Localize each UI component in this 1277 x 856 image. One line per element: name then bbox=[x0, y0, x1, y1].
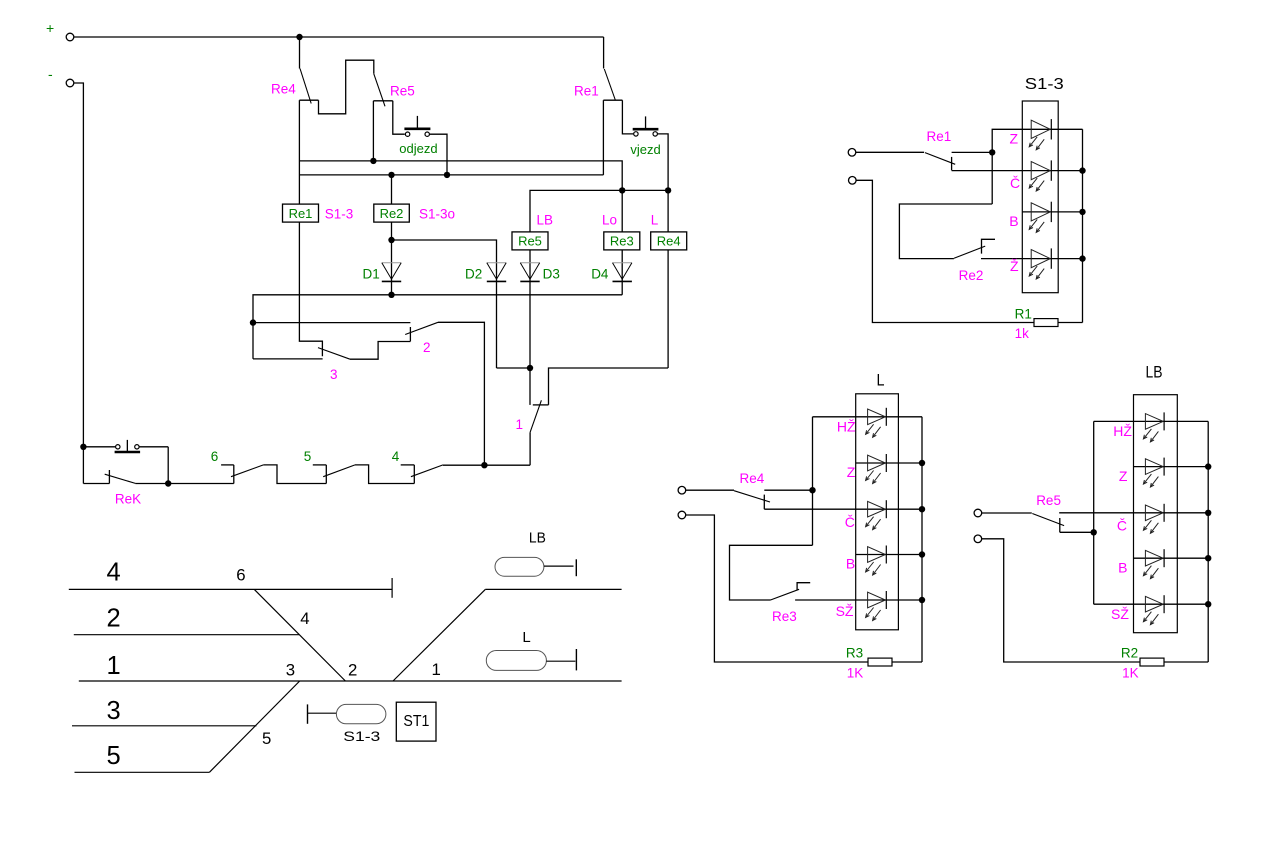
node junction busLB/Z bbox=[1205, 463, 1211, 469]
switch contact 3 bbox=[318, 348, 350, 360]
wire row C led L bbox=[868, 501, 886, 517]
station box ST1 bbox=[396, 702, 436, 741]
wire odjezd to line2 bbox=[429, 134, 447, 175]
node terminal S1-3 a bbox=[848, 149, 856, 157]
wire right bus LB bbox=[1207, 421, 1209, 662]
signal head L box bbox=[856, 394, 899, 630]
wire line1 bbox=[299, 161, 622, 191]
svg-text:odjezd: odjezd bbox=[399, 141, 437, 156]
svg-text:Č: Č bbox=[1010, 175, 1020, 191]
svg-text:L: L bbox=[651, 213, 659, 228]
node - terminal bbox=[66, 79, 74, 87]
node junction lower bus bbox=[481, 462, 487, 468]
svg-text:LB: LB bbox=[537, 213, 554, 228]
svg-text:+: + bbox=[46, 20, 54, 36]
track 4 line bbox=[69, 588, 392, 590]
wire bus-left bottom bbox=[253, 358, 323, 360]
switch contact 4 bbox=[401, 464, 415, 466]
wire D2 to switch1 node bbox=[497, 367, 531, 369]
svg-text:SŽ: SŽ bbox=[1111, 606, 1129, 622]
node junction ReK top bbox=[80, 444, 86, 450]
wire row HZ LB bbox=[1094, 420, 1209, 422]
wire right bus L bbox=[921, 417, 923, 662]
svg-text:Re3: Re3 bbox=[610, 234, 634, 249]
svg-text:Re5: Re5 bbox=[390, 84, 415, 99]
switch contact 5 bbox=[313, 464, 327, 466]
node terminal LB b bbox=[974, 535, 982, 543]
wire row B LB bbox=[1134, 557, 1209, 559]
svg-text:2: 2 bbox=[107, 604, 121, 632]
wire row C led LB bbox=[1145, 505, 1163, 521]
wire bottom S1-3 bbox=[856, 180, 1034, 322]
track turnout 5 diagonal bbox=[209, 681, 299, 772]
svg-text:S1-3: S1-3 bbox=[325, 207, 354, 222]
wire switch6 to switch5 bbox=[263, 465, 326, 484]
svg-text:Č: Č bbox=[845, 514, 855, 530]
wire - down to ReK bbox=[74, 83, 84, 447]
wire Re5 coil through D3 bbox=[529, 250, 531, 368]
svg-text:B: B bbox=[1009, 213, 1018, 229]
svg-text:5: 5 bbox=[107, 742, 121, 770]
svg-text:LB: LB bbox=[1146, 363, 1163, 382]
svg-text:L: L bbox=[877, 371, 885, 390]
wire row Z led bbox=[1031, 120, 1050, 138]
svg-text:Re2: Re2 bbox=[959, 268, 984, 283]
svg-text:1K: 1K bbox=[1122, 666, 1139, 681]
track 3 line bbox=[72, 725, 256, 727]
wire row Z led L bbox=[856, 462, 922, 464]
wire R1 to bus bbox=[1058, 322, 1083, 324]
svg-text:Re1: Re1 bbox=[574, 84, 599, 99]
resistor R2 bbox=[1140, 658, 1164, 666]
wire to Re2 contact bbox=[899, 204, 992, 259]
wire line2 bbox=[299, 174, 603, 176]
svg-text:Z: Z bbox=[1010, 131, 1019, 147]
wire R2 to bus bbox=[1164, 661, 1208, 663]
signal lamp S1-3 bbox=[307, 704, 309, 723]
wire row HZ bbox=[813, 416, 923, 418]
svg-text:Re2: Re2 bbox=[380, 206, 404, 221]
svg-text:Lo: Lo bbox=[602, 213, 617, 228]
wire row C feed bbox=[952, 170, 1083, 172]
wire to Re3 contact bbox=[730, 545, 813, 600]
svg-text:Č: Č bbox=[1117, 517, 1127, 533]
wire row B bbox=[1022, 211, 1082, 213]
wire left bus LB bbox=[1093, 421, 1095, 604]
node junction busLB/B bbox=[1205, 555, 1211, 561]
svg-text:4: 4 bbox=[300, 609, 309, 628]
node junction busLB/C bbox=[1205, 510, 1211, 516]
svg-text:R3: R3 bbox=[846, 646, 863, 661]
pushbutton odjezd bbox=[405, 132, 409, 136]
svg-text:S1-3: S1-3 bbox=[1025, 76, 1064, 93]
wire Re1 coil to switch 3 bbox=[299, 222, 322, 356]
wire row B led L bbox=[856, 554, 922, 556]
node junction line3/L bbox=[665, 187, 671, 193]
wire row Z LB bbox=[1134, 466, 1209, 468]
svg-text:6: 6 bbox=[236, 566, 245, 585]
track 1 line bbox=[79, 680, 622, 682]
node junction busLB/SZ bbox=[1205, 601, 1211, 607]
svg-text:Re4: Re4 bbox=[657, 234, 681, 249]
wire R3 to bus bbox=[892, 661, 922, 663]
svg-text:Re4: Re4 bbox=[740, 471, 765, 486]
wire Re1 NO to Z node bbox=[952, 151, 993, 153]
wire switch2 to lower bus bbox=[438, 322, 484, 465]
svg-text:3: 3 bbox=[286, 660, 295, 679]
node junction busL/C bbox=[919, 506, 925, 512]
wire row C feed LB bbox=[1059, 512, 1208, 514]
svg-text:D4: D4 bbox=[591, 267, 609, 282]
wire Re4 NO to HZ node bbox=[764, 489, 812, 491]
switch contact 6 bbox=[221, 464, 234, 466]
svg-text:vjezd: vjezd bbox=[630, 142, 660, 157]
switch contact 1 bbox=[529, 368, 531, 405]
wire Re3 coil through D4 bbox=[621, 250, 623, 295]
svg-text:1: 1 bbox=[107, 652, 121, 680]
svg-text:4: 4 bbox=[392, 449, 400, 464]
node junction bus/C bbox=[1079, 167, 1085, 173]
relay contact ReK bbox=[83, 483, 109, 485]
node junction line2/odjezd bbox=[444, 172, 450, 178]
svg-text:5: 5 bbox=[262, 729, 271, 748]
wire switch1 to lower bus bbox=[529, 432, 531, 465]
relay coil Re2 bbox=[391, 175, 393, 204]
wire to D2 bbox=[392, 240, 497, 368]
svg-text:R2: R2 bbox=[1121, 646, 1138, 661]
relay contact Re2 bbox=[954, 246, 985, 258]
relay contact Re5 bbox=[374, 74, 385, 107]
wire Re1 NO to vjezd button bbox=[622, 100, 633, 134]
svg-text:1: 1 bbox=[516, 417, 524, 432]
diode D3 bbox=[520, 262, 539, 264]
wire Re4 NC down to Re1 coil bbox=[298, 100, 300, 204]
node junction busL/SZ bbox=[919, 597, 925, 603]
svg-text:3: 3 bbox=[107, 697, 121, 725]
wire switch3 to switch2 tick bbox=[350, 342, 410, 360]
node junction bus/D1 bbox=[388, 292, 394, 298]
svg-text:Ž: Ž bbox=[1010, 258, 1019, 274]
svg-text:D3: D3 bbox=[543, 267, 560, 282]
wire cathode bus bbox=[253, 295, 622, 359]
node junction Re2/D1/D2 bbox=[388, 237, 394, 243]
pushbutton vjezd bbox=[634, 132, 638, 136]
svg-text:SŽ: SŽ bbox=[836, 603, 854, 619]
wire vjezd to line3 bbox=[657, 134, 668, 191]
wire Re5 NC to left bus bbox=[1060, 531, 1094, 533]
node junction ReK/bus bbox=[165, 480, 171, 486]
svg-text:D2: D2 bbox=[465, 267, 482, 282]
node junction line3/Lo bbox=[619, 187, 625, 193]
wire row HZ led bbox=[868, 409, 886, 425]
svg-text:D1: D1 bbox=[363, 267, 380, 282]
svg-text:Re1: Re1 bbox=[289, 206, 313, 221]
svg-text:ReK: ReK bbox=[115, 492, 141, 507]
relay contact Re3 bbox=[771, 589, 800, 600]
node junction busL/Z bbox=[919, 460, 925, 466]
svg-text:2: 2 bbox=[348, 660, 357, 679]
svg-text:6: 6 bbox=[211, 449, 219, 464]
svg-text:-: - bbox=[48, 66, 53, 82]
svg-text:4: 4 bbox=[107, 559, 121, 587]
wire row SZ LB bbox=[1094, 603, 1209, 605]
svg-text:1k: 1k bbox=[1015, 326, 1030, 341]
wire staircase Re4 to Re5 bbox=[319, 60, 374, 114]
pushbutton ReK reset bbox=[83, 446, 115, 448]
wire row C feed L bbox=[764, 508, 922, 510]
wire line3 bbox=[530, 190, 668, 232]
wire terminal to Re4 contact bbox=[685, 489, 734, 491]
diode D2 bbox=[487, 262, 506, 264]
wire Re2 coil to D1 node bbox=[391, 222, 393, 240]
node junction LB left bus bbox=[1091, 529, 1097, 535]
svg-text:2: 2 bbox=[423, 340, 431, 355]
wire row SZ feed bbox=[795, 599, 922, 601]
relay coil Re1 bbox=[283, 204, 319, 222]
svg-text:1K: 1K bbox=[847, 666, 864, 681]
wire switch1 fixed to L line bbox=[549, 368, 669, 405]
track turnout 1 diagonal to LB bbox=[393, 589, 485, 681]
svg-text:1: 1 bbox=[432, 660, 441, 679]
node junction bus/B bbox=[1079, 209, 1085, 215]
wire bottom LB bbox=[981, 539, 1140, 662]
node junction Z feed bbox=[989, 149, 995, 155]
node junction line2/Re2 lead bbox=[388, 172, 394, 178]
svg-text:Re3: Re3 bbox=[772, 609, 797, 624]
svg-text:S1-3o: S1-3o bbox=[419, 207, 455, 222]
wire L coil down bbox=[667, 250, 669, 368]
svg-text:5: 5 bbox=[304, 449, 312, 464]
track 5 line bbox=[75, 771, 210, 773]
node junction +bus/Re4 bbox=[296, 34, 302, 40]
wire to switch 2 bbox=[253, 322, 410, 324]
relay coil Re5 LB bbox=[512, 232, 548, 250]
wire Re1 NC down to line2 bbox=[602, 100, 604, 175]
wire ReK left bbox=[82, 447, 84, 484]
wire right bus S1-3 bbox=[1082, 129, 1084, 322]
svg-text:LB: LB bbox=[529, 529, 546, 546]
svg-text:HŽ: HŽ bbox=[1113, 423, 1132, 439]
svg-text:B: B bbox=[846, 556, 855, 572]
node terminal L a bbox=[678, 486, 686, 494]
svg-text:Z: Z bbox=[847, 464, 856, 480]
wire row Z2 feed bbox=[981, 258, 1083, 260]
wire terminal to Re5 contact bbox=[981, 512, 1031, 514]
wire D1 branch bbox=[391, 240, 393, 295]
svg-text:Re1: Re1 bbox=[927, 129, 952, 144]
wire switch5 to switch4 bbox=[355, 465, 414, 484]
svg-text:Re5: Re5 bbox=[518, 234, 542, 249]
relay contact Re4 bbox=[299, 37, 301, 69]
relay contact Re4 right bbox=[734, 491, 770, 502]
wire HZ vertical bbox=[812, 417, 814, 546]
track turnout 6-4 diagonal bbox=[254, 589, 345, 681]
node junction line1/Re5NC bbox=[370, 158, 376, 164]
wire bottom L bbox=[685, 515, 868, 662]
diode D1 bbox=[382, 262, 401, 264]
svg-text:B: B bbox=[1118, 560, 1127, 576]
svg-text:Re5: Re5 bbox=[1036, 493, 1061, 508]
node junction bus/Z2 bbox=[1079, 255, 1085, 261]
node terminal LB a bbox=[974, 509, 982, 517]
node junction HZ feed bbox=[809, 487, 815, 493]
wire + bus bbox=[74, 36, 604, 38]
resistor R3 bbox=[868, 658, 892, 666]
node + terminal bbox=[66, 33, 74, 41]
svg-text:R1: R1 bbox=[1015, 307, 1032, 322]
relay contact Re1 top bbox=[603, 37, 605, 69]
relay coil Re3 Lo bbox=[621, 190, 623, 232]
signal head LB box bbox=[1134, 395, 1178, 633]
wire row C led bbox=[1031, 162, 1050, 180]
svg-text:Z: Z bbox=[1119, 468, 1128, 484]
svg-text:ST1: ST1 bbox=[403, 713, 429, 730]
node terminal L b bbox=[678, 511, 686, 519]
track 2 line bbox=[74, 634, 299, 636]
svg-text:S1-3: S1-3 bbox=[343, 728, 380, 744]
switch contact 2 bbox=[409, 327, 411, 341]
signal head S1-3 box bbox=[1022, 101, 1058, 293]
wire lower bus right bbox=[443, 464, 530, 466]
node junction busL/B bbox=[919, 551, 925, 557]
wire Re5 NO to odjezd button bbox=[393, 101, 405, 134]
relay contact Re1 right bbox=[925, 153, 955, 165]
svg-text:3: 3 bbox=[330, 367, 338, 382]
wire Re5 NC down to line1 bbox=[372, 101, 374, 161]
wire terminal to Re1 contact bbox=[856, 151, 924, 153]
resistor R1 bbox=[1034, 319, 1058, 327]
wire Z vertical and row Z bbox=[992, 129, 1082, 204]
svg-text:HŽ: HŽ bbox=[837, 418, 856, 434]
relay coil Re4 L bbox=[667, 190, 669, 232]
wire row SZ led L bbox=[868, 592, 886, 608]
svg-text:Re4: Re4 bbox=[271, 82, 296, 97]
diode D4 bbox=[613, 262, 632, 264]
svg-text:L: L bbox=[522, 629, 530, 646]
node junction D2/switch1 bbox=[527, 365, 533, 371]
node junction bus-left/switch2 bbox=[250, 319, 256, 325]
node terminal S1-3 b bbox=[849, 177, 857, 185]
relay contact Re5 right bbox=[1032, 514, 1064, 526]
